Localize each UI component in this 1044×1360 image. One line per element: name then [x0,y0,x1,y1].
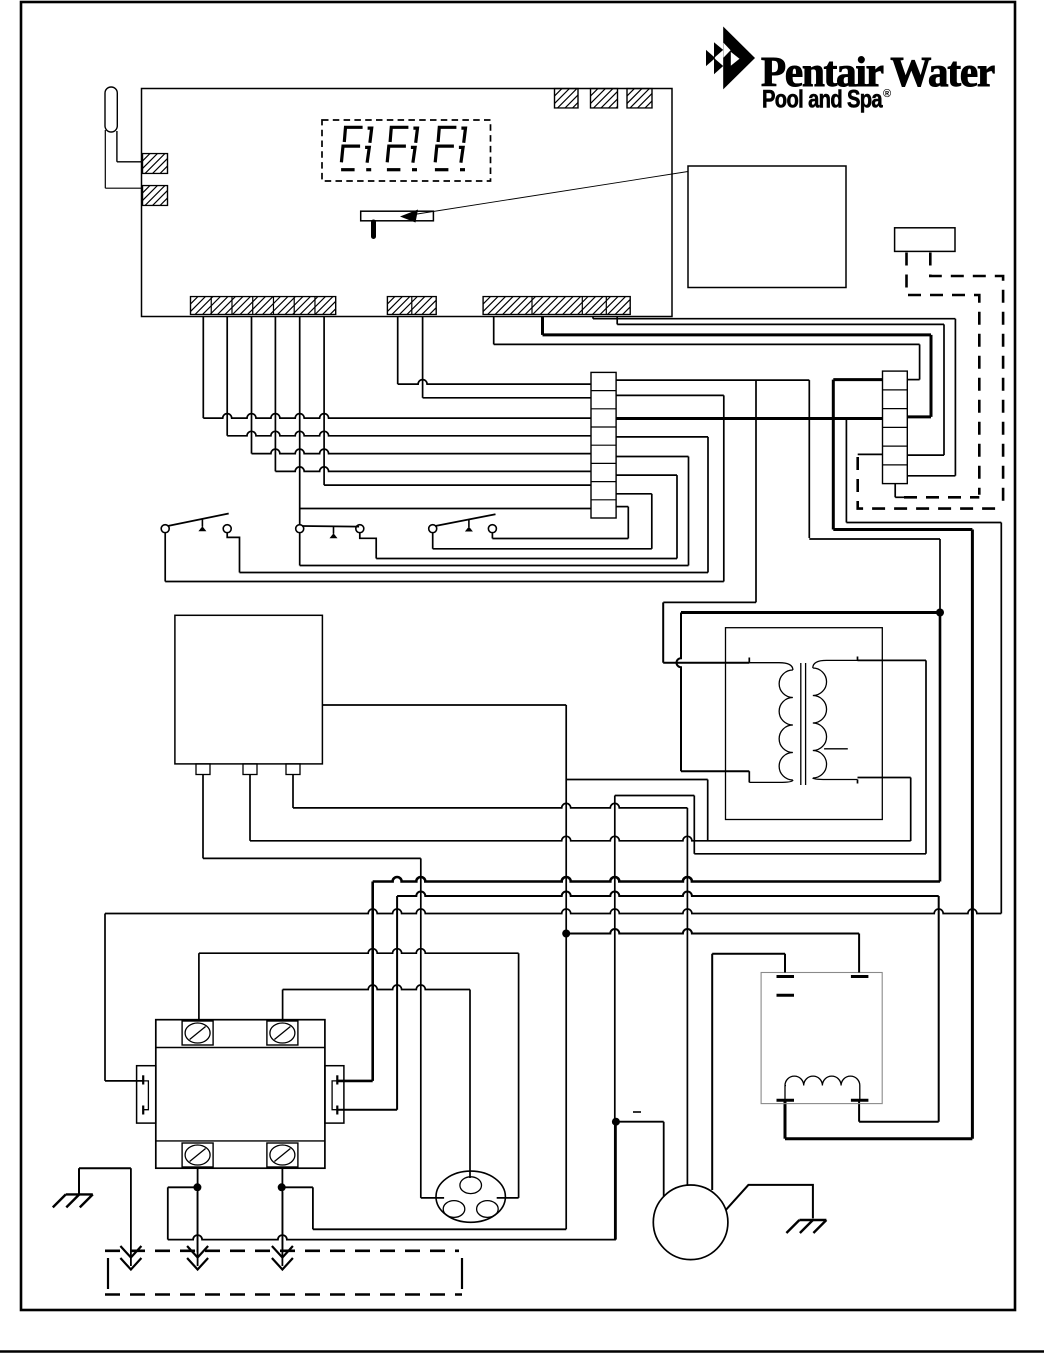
svg-text:Pool and Spa: Pool and Spa [762,86,884,114]
svg-text:®: ® [883,88,891,100]
